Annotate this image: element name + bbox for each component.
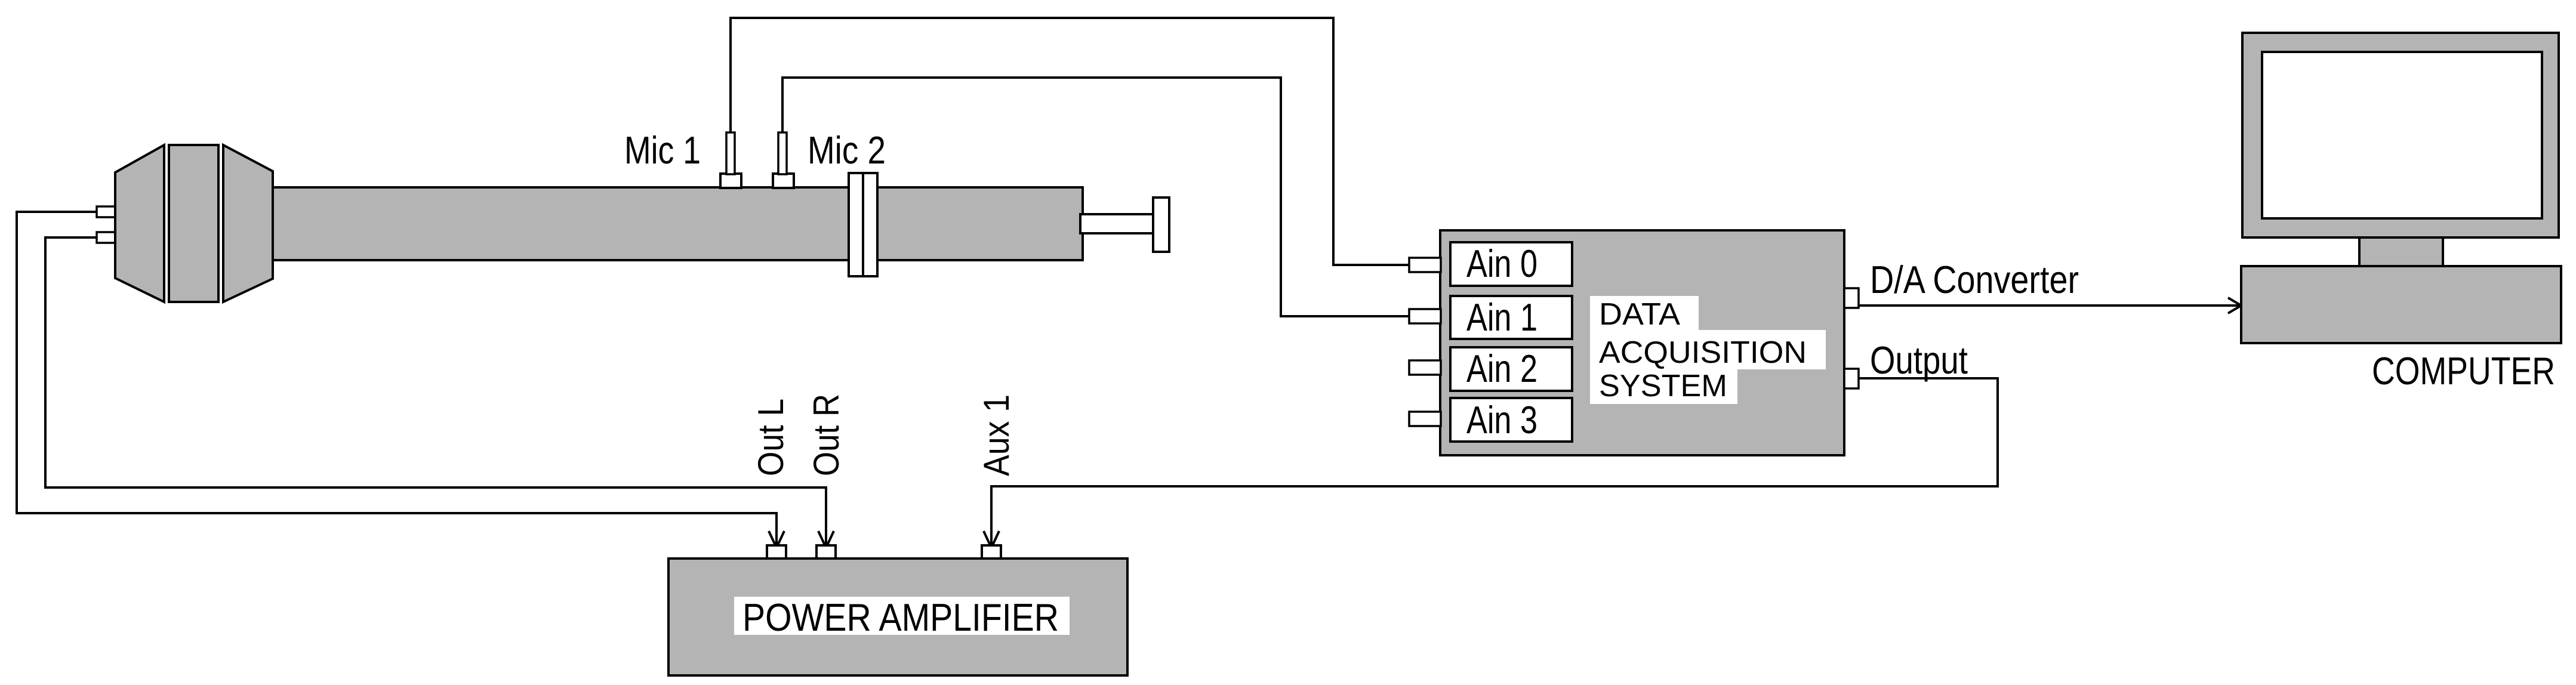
- arrowhead Out R: [818, 531, 834, 548]
- microphone 2 stem: [778, 132, 787, 174]
- Ain 2 input box: [1450, 347, 1572, 391]
- svg-text:Ain 2: Ain 2: [1466, 347, 1537, 390]
- svg-text:D/A Converter: D/A Converter: [1870, 258, 2079, 301]
- Ain 0 input box: [1450, 242, 1572, 286]
- Aux 1 connector: [982, 545, 1001, 559]
- piston handle: [1153, 198, 1169, 252]
- loudspeaker rear trapezoid: [115, 145, 164, 302]
- power amplifier box: [668, 559, 1127, 675]
- sample holder: [849, 173, 877, 276]
- impedance tube: [273, 187, 1083, 260]
- amplifier label background: [734, 597, 1070, 635]
- svg-text:Ain 1: Ain 1: [1466, 295, 1537, 339]
- arrowhead Out L: [769, 531, 784, 548]
- sample holder divider: [862, 173, 864, 276]
- svg-text:Out L: Out L: [751, 399, 791, 476]
- svg-text:DATA: DATA: [1599, 297, 1680, 332]
- svg-text:POWER AMPLIFIER: POWER AMPLIFIER: [742, 595, 1059, 639]
- svg-text:Ain 3: Ain 3: [1466, 398, 1537, 442]
- wire from speaker bottom stub to Out R: [45, 237, 826, 547]
- D/A Converter stub: [1844, 288, 1859, 308]
- wire Mic 1 to Ain 0: [731, 18, 1409, 265]
- computer screen: [2262, 52, 2542, 218]
- svg-text:Aux 1: Aux 1: [976, 394, 1016, 476]
- svg-text:SYSTEM: SYSTEM: [1599, 369, 1727, 403]
- DAS label background line 2: [1590, 330, 1826, 369]
- svg-text:ACQUISITION: ACQUISITION: [1599, 335, 1807, 370]
- loudspeaker front trapezoid: [223, 145, 273, 302]
- DAS label background line 3: [1590, 369, 1737, 404]
- svg-text:Mic 2: Mic 2: [808, 128, 886, 172]
- computer monitor: [2242, 33, 2559, 237]
- svg-text:Out R: Out R: [806, 394, 846, 476]
- svg-text:Output: Output: [1870, 338, 1968, 382]
- DAS label background line 1: [1590, 296, 1699, 330]
- Ain 0 connector stub: [1409, 258, 1441, 272]
- wire Mic 2 to Ain 1: [782, 78, 1409, 316]
- Out R connector: [816, 545, 836, 559]
- loudspeaker stub lower: [97, 232, 116, 243]
- computer base: [2241, 266, 2561, 343]
- svg-text:COMPUTER: COMPUTER: [2372, 349, 2555, 393]
- arrowhead Aux 1: [984, 531, 999, 548]
- loudspeaker stub upper: [97, 206, 116, 217]
- Ain 1 input box: [1450, 296, 1572, 339]
- microphone 1 base: [720, 174, 741, 188]
- wire from speaker top stub to Out L: [17, 212, 777, 547]
- data acquisition system box: [1440, 230, 1844, 455]
- Ain 3 connector stub: [1409, 412, 1441, 426]
- microphone 2 base: [773, 174, 794, 188]
- Ain 3 input box: [1450, 398, 1572, 442]
- svg-text:Ain 0: Ain 0: [1466, 242, 1537, 285]
- wire D/A Converter to computer: [1859, 304, 2240, 307]
- piston rod: [1080, 214, 1154, 233]
- loudspeaker middle section: [169, 145, 218, 302]
- arrowhead D/A to computer: [2228, 298, 2241, 313]
- Out L connector: [767, 545, 786, 559]
- Ain 2 connector stub: [1409, 360, 1441, 375]
- wire DAS Output to Aux 1: [991, 378, 1998, 547]
- Ain 1 connector stub: [1409, 309, 1441, 323]
- computer neck: [2359, 237, 2443, 266]
- microphone 1 stem: [726, 132, 735, 174]
- Output stub: [1844, 369, 1859, 388]
- svg-text:Mic 1: Mic 1: [624, 128, 701, 172]
